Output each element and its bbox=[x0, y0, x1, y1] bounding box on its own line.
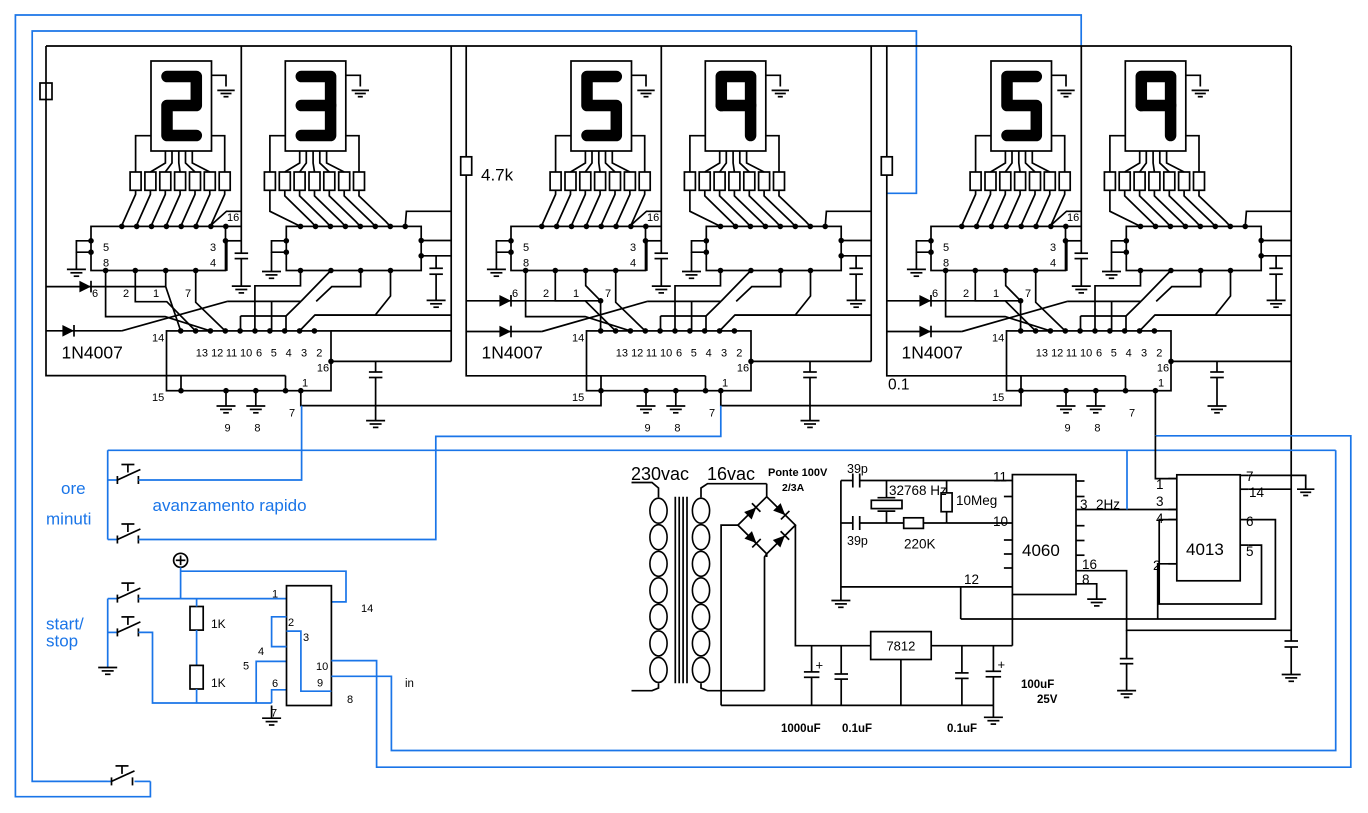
resistor R12 10Meg bbox=[941, 481, 997, 524]
svg-text:16: 16 bbox=[227, 212, 239, 224]
wire S3 to U5 pin1 bbox=[138, 598, 286, 600]
svg-text:14: 14 bbox=[992, 333, 1004, 345]
svg-text:11: 11 bbox=[226, 348, 237, 360]
svg-text:1N4007: 1N4007 bbox=[482, 343, 543, 363]
svg-text:8: 8 bbox=[523, 258, 529, 270]
U2c pin1 clock node bbox=[718, 378, 728, 394]
svg-text:4: 4 bbox=[258, 646, 264, 658]
capacitor C7 decoupling 4060 bbox=[1117, 630, 1136, 697]
svg-text:7: 7 bbox=[289, 408, 295, 420]
capacitor C5 39p bbox=[841, 462, 887, 488]
wire VDD mid rail of group 3 bbox=[1072, 46, 1091, 293]
svg-text:3: 3 bbox=[301, 348, 307, 360]
switch S1 ore (hours advance) bbox=[108, 465, 141, 485]
svg-text:1K: 1K bbox=[211, 676, 226, 690]
carry wire via diode D2b bbox=[542, 301, 647, 331]
wire left frame vertical to pin15 of U1c bbox=[46, 46, 286, 376]
ground of start/stop switches bbox=[98, 668, 117, 675]
weave wires U1c outputs to U1a inputs bbox=[92, 271, 225, 331]
ground of supply rail bbox=[984, 705, 1003, 724]
svg-text:9: 9 bbox=[1065, 423, 1071, 435]
U2a pin16 wire to rail bbox=[631, 211, 661, 226]
wires resistors to decoder U5 pins bbox=[961, 190, 1065, 226]
capacitor decoupling on mid rail group 1 bbox=[235, 252, 249, 254]
svg-text:7: 7 bbox=[1129, 408, 1135, 420]
U2a bottom input nodes bbox=[523, 268, 619, 274]
svg-text:6: 6 bbox=[932, 288, 938, 300]
svg-text:230vac: 230vac bbox=[631, 464, 689, 484]
U3c pins 9,8 to ground bbox=[1057, 388, 1106, 435]
wire blue outer loop from reset switch to VDD frame bbox=[15, 15, 1081, 797]
U3a pin16 wire to rail bbox=[1051, 211, 1081, 226]
U2b bottom input nodes bbox=[718, 268, 814, 274]
ground of display DS2 bbox=[346, 75, 369, 96]
segment resistors R4a-R4g bbox=[684, 172, 784, 190]
svg-text:4: 4 bbox=[1050, 258, 1056, 270]
U1a pin16 wire to rail bbox=[211, 211, 241, 226]
wires display DS2 segments to resistors bbox=[270, 136, 359, 172]
ground of mid rail capacitor group 1 bbox=[232, 285, 251, 287]
U1b pins 5,8 ground bracket bbox=[262, 238, 289, 278]
U1a bottom input nodes bbox=[103, 268, 199, 274]
svg-text:4: 4 bbox=[630, 258, 636, 270]
weave wires U2c outputs to U2b inputs bbox=[647, 271, 810, 331]
display DS3 (7-segment, digit 5) bbox=[571, 61, 632, 151]
svg-text:minuti: minuti bbox=[46, 510, 91, 529]
capacitor C3 0.1uF bbox=[947, 646, 977, 735]
wire VDD mid rail of group 2 bbox=[652, 46, 671, 293]
svg-text:14: 14 bbox=[572, 333, 584, 345]
svg-text:+: + bbox=[816, 658, 824, 673]
wires display DS5 segments to resistors bbox=[976, 136, 1065, 172]
decoder IC U3a (4511) for digit 5 bbox=[931, 224, 1069, 271]
resistor R10 1K bbox=[190, 665, 226, 703]
U3c pin15 nodes bbox=[992, 376, 1135, 420]
ground of mid rail capacitor group 2 bbox=[652, 285, 671, 287]
wires resistors to decoder U6 pins bbox=[1110, 190, 1230, 226]
wire S1 to U1c pin1 clock bbox=[138, 406, 301, 480]
svg-text:1K: 1K bbox=[211, 617, 226, 631]
svg-text:39p: 39p bbox=[847, 534, 868, 548]
segment resistors R3a-R3g bbox=[550, 172, 650, 190]
svg-text:16: 16 bbox=[1157, 362, 1169, 374]
carry wire via diode D3b bbox=[962, 301, 1067, 331]
resistor R9 1K bbox=[190, 599, 226, 666]
svg-text:1N4007: 1N4007 bbox=[902, 343, 963, 363]
svg-text:1: 1 bbox=[153, 288, 159, 300]
flip-flop IC U8 4013 bbox=[1153, 469, 1265, 581]
decoder IC U1a (4511) for digit 2 bbox=[91, 224, 229, 271]
display DS6 (7-segment, digit 9) bbox=[1125, 61, 1186, 151]
wires display DS6 segments to resistors bbox=[1110, 136, 1199, 172]
svg-text:7: 7 bbox=[605, 288, 611, 300]
wire bridge plus to 7812 input rail bbox=[795, 525, 870, 646]
diode D2a 1N4007 bbox=[466, 295, 600, 307]
wires resistors to decoder U2 pins bbox=[270, 190, 390, 226]
svg-text:5: 5 bbox=[1246, 544, 1254, 559]
weave wires U1c outputs to U1b inputs bbox=[227, 271, 390, 331]
diode D2b 1N4007 bbox=[466, 326, 542, 338]
capacitor decoupling at U2b bbox=[847, 256, 866, 307]
supply terminal + (plus) bbox=[174, 553, 188, 567]
display DS4 (7-segment, digit 9) bbox=[705, 61, 766, 151]
regulator U6 7812 bbox=[871, 632, 932, 706]
U1b right pins to separator rail bbox=[418, 238, 451, 259]
capacitor decoupling at U3c bbox=[1208, 361, 1227, 412]
capacitor decoupling at U2c bbox=[801, 361, 820, 427]
svg-text:32768 Hz: 32768 Hz bbox=[889, 483, 947, 498]
wires display DS1 segments to resistors bbox=[136, 136, 225, 172]
diode D1a 1N4007 bbox=[46, 281, 166, 293]
svg-text:3: 3 bbox=[1141, 348, 1147, 360]
svg-text:10Meg: 10Meg bbox=[956, 493, 997, 508]
U1b bottom input nodes bbox=[298, 268, 394, 274]
svg-text:6: 6 bbox=[272, 678, 278, 690]
svg-text:13: 13 bbox=[616, 348, 628, 360]
svg-text:2: 2 bbox=[316, 348, 322, 360]
counter IC U1c (4518) bbox=[152, 328, 331, 391]
svg-text:3: 3 bbox=[630, 242, 636, 254]
wire ground rail of supply bbox=[721, 704, 993, 706]
wire blue fast-advance bus (2Hz) bbox=[108, 449, 1336, 451]
wire S2 to U2c pin1 clock bbox=[138, 406, 720, 540]
wire U5 pin7 to ground bbox=[262, 706, 281, 726]
U2c pin15 nodes bbox=[572, 376, 715, 420]
svg-text:2: 2 bbox=[736, 348, 742, 360]
decoder IC U3b (4511) for digit 9 bbox=[1126, 224, 1261, 271]
wire bridge minus to ground rail bbox=[721, 525, 738, 705]
svg-text:1N4007: 1N4007 bbox=[62, 343, 123, 363]
svg-text:6: 6 bbox=[676, 348, 682, 360]
capacitor decoupling at U1b bbox=[427, 256, 446, 307]
wire VDD top frame bus bbox=[46, 45, 1291, 47]
wires display DS4 segments to resistors bbox=[690, 136, 779, 172]
U2b pin16 wire to separator rail bbox=[825, 211, 871, 226]
svg-text:12: 12 bbox=[211, 348, 223, 360]
wire clock line U1c pin1 to U2c pin15 bbox=[301, 391, 601, 406]
svg-text:25V: 25V bbox=[1037, 694, 1058, 706]
svg-text:8: 8 bbox=[943, 258, 949, 270]
resistor R7 4.7k on rail feeding U2c pin15 bracket bbox=[461, 46, 706, 376]
svg-text:avanzamento rapido: avanzamento rapido bbox=[153, 496, 307, 515]
carry wire via diode D1b bbox=[122, 301, 227, 330]
diode D3a 1N4007 bbox=[887, 295, 1021, 307]
capacitor decoupling at U1c bbox=[366, 361, 385, 427]
transformer TR1 windings bbox=[632, 483, 767, 691]
svg-text:7: 7 bbox=[185, 288, 191, 300]
svg-text:8: 8 bbox=[254, 423, 260, 435]
switch S5 reset (bottom left) bbox=[108, 766, 151, 786]
gate IC U5 (4093) start/stop debounce bbox=[243, 586, 373, 720]
U1a pins 5,8 ground bracket bbox=[67, 238, 94, 276]
svg-text:0.1: 0.1 bbox=[888, 377, 910, 394]
svg-text:6: 6 bbox=[92, 288, 98, 300]
U2a pin3 wire to rail bbox=[643, 238, 662, 271]
svg-text:9: 9 bbox=[645, 423, 651, 435]
svg-text:3: 3 bbox=[1156, 494, 1164, 509]
wire 4013 pin4 to pin6 loop bbox=[1159, 520, 1261, 604]
capacitor C4 100uF 25V bbox=[986, 646, 1058, 706]
svg-text:11: 11 bbox=[993, 470, 1007, 485]
capacitor C2 0.1uF bbox=[835, 646, 873, 735]
ground of mid rail capacitor group 3 bbox=[1072, 285, 1091, 287]
wire S4 to U5 pins 5,6 bbox=[138, 632, 286, 703]
wire 4013 pin14 to VDD frame bbox=[1249, 488, 1292, 490]
svg-text:12: 12 bbox=[631, 348, 643, 360]
wire VDD mid rail of group 1 bbox=[232, 46, 251, 293]
svg-text:14: 14 bbox=[1249, 485, 1265, 500]
weave wires U3c outputs to U3b inputs bbox=[1067, 271, 1230, 331]
U3b bottom input nodes bbox=[1138, 268, 1234, 274]
wire right frame vertical (VDD to 4013) bbox=[1290, 46, 1292, 641]
svg-text:13: 13 bbox=[196, 348, 208, 360]
wire + terminal to U5 pin14 bbox=[181, 567, 346, 602]
svg-text:10: 10 bbox=[660, 348, 672, 360]
svg-text:3: 3 bbox=[303, 632, 309, 644]
svg-text:4: 4 bbox=[286, 348, 292, 360]
svg-text:11: 11 bbox=[646, 348, 657, 360]
svg-text:13: 13 bbox=[1036, 348, 1048, 360]
svg-text:16: 16 bbox=[647, 212, 659, 224]
U2b right pins to separator rail bbox=[838, 238, 871, 259]
svg-text:2: 2 bbox=[543, 288, 549, 300]
svg-text:16vac: 16vac bbox=[707, 464, 755, 484]
svg-text:9: 9 bbox=[225, 423, 231, 435]
svg-text:3: 3 bbox=[721, 348, 727, 360]
svg-text:12: 12 bbox=[964, 572, 979, 587]
svg-text:7812: 7812 bbox=[886, 639, 915, 654]
weave wires U2c outputs to U2a inputs bbox=[512, 271, 645, 331]
diode D1b 1N4007 bbox=[46, 325, 122, 337]
segment resistors R6a-R6g bbox=[1104, 172, 1204, 190]
wires display DS3 segments to resistors bbox=[556, 136, 645, 172]
svg-text:8: 8 bbox=[103, 258, 109, 270]
svg-text:1: 1 bbox=[573, 288, 579, 300]
ground of display DS3 bbox=[632, 75, 655, 96]
ground of display DS1 bbox=[212, 75, 235, 96]
svg-text:2: 2 bbox=[963, 288, 969, 300]
segment resistors R2a-R2g bbox=[264, 172, 364, 190]
svg-text:2: 2 bbox=[288, 617, 294, 629]
ground of display DS4 bbox=[766, 75, 789, 96]
weave wires U3c outputs to U3a inputs bbox=[932, 271, 1065, 331]
wire U5 pin10 output to seconds clock (in) bbox=[331, 436, 1350, 767]
svg-text:1: 1 bbox=[302, 378, 308, 390]
wire 4060 pin8 to ground bbox=[1076, 584, 1106, 606]
display DS5 (7-segment, digit 5) bbox=[991, 61, 1052, 151]
switch S3 start bbox=[108, 583, 141, 603]
svg-text:2: 2 bbox=[1156, 348, 1162, 360]
svg-text:16: 16 bbox=[317, 362, 329, 374]
U1c pins 9,8 to ground bbox=[217, 388, 266, 435]
svg-text:1: 1 bbox=[272, 589, 278, 601]
bridge rectifier B1 bbox=[738, 484, 796, 691]
wire 4013 pin2 to pin5 loop and reset net bbox=[961, 520, 1276, 619]
svg-text:3: 3 bbox=[210, 242, 216, 254]
switch S2 minuti (minutes advance) bbox=[108, 524, 141, 544]
U2c pins 9,8 to ground bbox=[637, 388, 686, 435]
svg-text:15: 15 bbox=[992, 392, 1004, 404]
U3b right pins to separator rail bbox=[1258, 238, 1291, 259]
svg-text:8: 8 bbox=[347, 694, 353, 706]
wire U5 pin3 to pin9 feedback bbox=[287, 631, 332, 691]
counter IC U3c (4518) bbox=[992, 328, 1171, 391]
wire clock line U3c pin1 (seconds) down to blue in-net bbox=[1154, 391, 1156, 436]
counter IC U2c (4518) bbox=[572, 328, 751, 391]
svg-text:4013: 4013 bbox=[1186, 540, 1224, 559]
U3c pin16 wire to separator rail bbox=[1157, 359, 1291, 375]
svg-text:7: 7 bbox=[709, 408, 715, 420]
svg-text:6: 6 bbox=[1096, 348, 1102, 360]
svg-text:6: 6 bbox=[256, 348, 262, 360]
U3a pin3 wire to rail bbox=[1063, 238, 1082, 271]
svg-text:8: 8 bbox=[674, 423, 680, 435]
U2a pins 5,8 ground bracket bbox=[487, 238, 514, 276]
U1a pin3 wire to rail bbox=[223, 238, 242, 271]
wires resistors to decoder U1 pins bbox=[121, 190, 225, 226]
svg-text:5: 5 bbox=[523, 242, 529, 254]
capacitor decoupling at U3b bbox=[1267, 256, 1286, 307]
wire blue inner loop from reset switch to group-3 clock rail bbox=[32, 31, 916, 781]
capacitor decoupling on mid rail group 2 bbox=[655, 252, 669, 254]
U2c pin16 wire to separator rail bbox=[737, 359, 871, 375]
svg-text:+: + bbox=[998, 657, 1006, 672]
svg-text:220K: 220K bbox=[904, 537, 936, 552]
svg-text:10: 10 bbox=[1080, 348, 1092, 360]
svg-text:11: 11 bbox=[1066, 348, 1077, 360]
wire 4013 pin7 to ground bbox=[1249, 475, 1315, 495]
display DS1 (7-segment, digit 2) bbox=[151, 61, 212, 151]
svg-text:4060: 4060 bbox=[1022, 541, 1060, 560]
wire blue start/stop common to ground bbox=[107, 599, 109, 668]
crystal X1 32768 Hz bbox=[871, 481, 947, 524]
svg-text:5: 5 bbox=[103, 242, 109, 254]
U3b pins 5,8 ground bracket bbox=[1102, 238, 1129, 278]
ground of display DS6 bbox=[1186, 75, 1209, 96]
svg-text:14: 14 bbox=[152, 333, 164, 345]
wire blue 2Hz tap to fast-advance bus bbox=[1126, 450, 1128, 509]
svg-text:4: 4 bbox=[1126, 348, 1132, 360]
svg-text:4: 4 bbox=[706, 348, 712, 360]
wire separator rail group2-3 (to U2c pin16 line) bbox=[870, 46, 872, 361]
svg-text:14: 14 bbox=[361, 603, 373, 615]
svg-text:15: 15 bbox=[572, 392, 584, 404]
ground of display DS5 bbox=[1052, 75, 1075, 96]
svg-text:5: 5 bbox=[1111, 348, 1117, 360]
decoder IC U1b (4511) for digit 3 bbox=[286, 224, 421, 271]
U1c carry wires pins 9,10 bbox=[300, 315, 452, 331]
svg-text:5: 5 bbox=[943, 242, 949, 254]
U2c carry wires pins 9,10 bbox=[720, 315, 872, 331]
svg-text:10: 10 bbox=[240, 348, 252, 360]
U1c pin16 wire to separator rail bbox=[317, 359, 451, 375]
wire 12V output rail bbox=[931, 645, 1012, 647]
svg-text:7: 7 bbox=[1025, 288, 1031, 300]
wires resistors to decoder U4 pins bbox=[690, 190, 810, 226]
svg-text:39p: 39p bbox=[847, 462, 868, 476]
svg-text:ore: ore bbox=[61, 479, 86, 498]
svg-text:0.1uF: 0.1uF bbox=[947, 723, 977, 735]
svg-text:100uF: 100uF bbox=[1021, 679, 1054, 691]
wire U5 pins 2-3 latch bracket bbox=[272, 617, 287, 647]
decoder IC U2a (4511) for digit 5 bbox=[511, 224, 649, 271]
svg-text:5: 5 bbox=[271, 348, 277, 360]
svg-text:4: 4 bbox=[210, 258, 216, 270]
wire 12V rail into 4060 bbox=[1011, 595, 1013, 646]
U1c pin15 nodes bbox=[152, 376, 295, 420]
diode D3b 1N4007 bbox=[887, 326, 962, 338]
svg-text:4.7k: 4.7k bbox=[481, 166, 514, 185]
svg-text:1: 1 bbox=[993, 288, 999, 300]
wire oscillator ground bus bbox=[831, 481, 850, 608]
wire 2Hz output 4060 pin3 to 4013 pin3 bbox=[1076, 509, 1177, 511]
svg-text:5: 5 bbox=[243, 661, 249, 673]
svg-text:9: 9 bbox=[317, 678, 323, 690]
svg-text:8: 8 bbox=[1082, 572, 1090, 587]
capacitor C1 1000uF bbox=[781, 646, 823, 735]
wire 4060 pin16 to VDD bbox=[1076, 571, 1291, 631]
U1b pin16 wire to separator rail bbox=[405, 211, 451, 226]
resistor R11 220K bbox=[887, 518, 947, 552]
svg-text:8: 8 bbox=[1094, 423, 1100, 435]
wire clock line U2c pin1 to U3c pin15 bbox=[721, 391, 1021, 406]
display DS2 (7-segment, digit 3) bbox=[285, 61, 346, 151]
svg-text:5: 5 bbox=[691, 348, 697, 360]
wire blue bus drop to ore/minuti switches bbox=[107, 450, 109, 539]
svg-text:6: 6 bbox=[512, 288, 518, 300]
svg-text:stop: stop bbox=[46, 632, 78, 651]
svg-text:in: in bbox=[405, 678, 414, 690]
svg-text:6: 6 bbox=[1246, 514, 1254, 529]
capacitor C10 on right frame bbox=[1285, 640, 1299, 642]
svg-text:7: 7 bbox=[1246, 469, 1254, 484]
wire 4013 pin1 clock from in-net bbox=[1155, 436, 1176, 479]
wire bridge AC bottom to transformer bbox=[766, 556, 768, 558]
ground of C10 bbox=[1282, 674, 1301, 676]
segment resistors R1a-R1g bbox=[130, 172, 230, 190]
svg-text:16: 16 bbox=[737, 362, 749, 374]
svg-text:15: 15 bbox=[152, 392, 164, 404]
svg-text:2: 2 bbox=[123, 288, 129, 300]
U3c pin1 clock node bbox=[1153, 378, 1165, 394]
svg-text:2/3A: 2/3A bbox=[782, 482, 805, 494]
svg-text:1: 1 bbox=[722, 378, 728, 390]
U3c carry wires pins 9,10 bbox=[1140, 315, 1292, 331]
svg-text:10: 10 bbox=[993, 514, 1008, 529]
U1c pin1 clock node bbox=[298, 378, 308, 394]
wire separator rail group1-2 (to U1c pin16 line) bbox=[450, 46, 452, 361]
svg-text:3: 3 bbox=[1050, 242, 1056, 254]
svg-text:16: 16 bbox=[1082, 557, 1097, 572]
U3a bottom input nodes bbox=[943, 268, 1039, 274]
switch S4 stop bbox=[108, 617, 141, 637]
oscillator IC U7 4060 bbox=[964, 470, 1120, 595]
svg-text:16: 16 bbox=[1067, 212, 1079, 224]
svg-text:10: 10 bbox=[316, 661, 328, 673]
U2b pins 5,8 ground bracket bbox=[682, 238, 709, 278]
svg-text:1000uF: 1000uF bbox=[781, 723, 821, 735]
wire U5 pin9 input from 2Hz bus bbox=[331, 450, 1335, 750]
resistor R6 pullup on left frame (hours clock rail) bbox=[40, 83, 52, 100]
wire 4060 pin12 to ground bus bbox=[841, 586, 1013, 588]
resistor R8 on rail feeding U3c pin15 bracket bbox=[881, 46, 1125, 394]
segment resistors R5a-R5g bbox=[970, 172, 1070, 190]
wire osc bottom branch to 4060 pin10 bbox=[947, 522, 1013, 524]
capacitor C6 39p bbox=[841, 516, 887, 548]
wire osc top branch to 4060 pin11 bbox=[887, 480, 1013, 482]
wires resistors to decoder U3 pins bbox=[541, 190, 645, 226]
svg-text:0.1uF: 0.1uF bbox=[842, 723, 872, 735]
